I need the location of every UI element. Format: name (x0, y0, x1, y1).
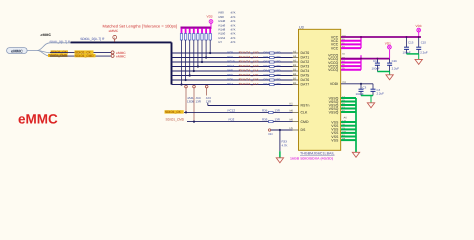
directive eMMC on bus (109, 29, 119, 42)
net label SDIO1_CK (highlighted) at CLK wire (165, 110, 184, 114)
directive eMMC on CMD (111, 54, 126, 58)
pin RSTn (293, 104, 310, 108)
capacitor C4 2.2uF (371, 84, 385, 96)
svg-text:C13: C13 (408, 41, 414, 45)
wire RSTn elbow (207, 103, 209, 106)
svg-text:DAT0: DAT0 (301, 51, 310, 55)
svg-text:PC9: PC9 (227, 55, 233, 59)
svg-text:13R: 13R (275, 64, 280, 68)
svg-text:DAT6: DAT6 (301, 78, 310, 82)
power port VD3 on VCC rail (416, 24, 422, 37)
svg-text:R10: R10 (264, 51, 270, 55)
resistor R150 47K pull-up (201, 28, 203, 62)
junction SDIO1_D6 (185, 79, 187, 81)
junction C15 (418, 36, 420, 38)
svg-text:U3: U3 (299, 25, 304, 29)
harness fan (37, 43, 50, 56)
svg-text:PD2: PD2 (229, 118, 235, 122)
svg-text:R13: R13 (264, 64, 270, 68)
svg-text:CLK: CLK (301, 111, 308, 115)
wire SDIO1_D0 (172, 52, 293, 54)
series resistor R36 13R on CLK (262, 108, 280, 113)
svg-text:13DB: 13DB (187, 99, 194, 103)
svg-text:13R: 13R (275, 51, 280, 55)
wire SDIO1_D4 (172, 70, 293, 72)
right pin numbers (342, 34, 347, 140)
svg-text:M6: M6 (290, 109, 294, 112)
svg-text:VD3: VD3 (416, 24, 422, 28)
gnd stem (389, 72, 391, 75)
svg-text:VSS: VSS (331, 138, 339, 142)
pin DAT2 (293, 60, 310, 64)
junction SDIO1_D7 (180, 83, 182, 85)
pin DAT1 (293, 56, 310, 60)
junction SDIO1_D3 (197, 65, 199, 67)
svg-text:PB8: PB8 (227, 69, 233, 73)
svg-text:2.2uF: 2.2uF (420, 50, 428, 54)
junction DS pulldown (279, 129, 281, 131)
resistor R140 47K pull-up (189, 28, 191, 75)
directive circle 2 (CMD net) (193, 85, 196, 121)
resistor R146 47K pull-up (193, 28, 195, 71)
pin DAT5 (293, 74, 310, 78)
svg-text:13R: 13R (275, 78, 280, 82)
svg-text:SDIO1_D0: SDIO1_D0 (239, 51, 259, 55)
pin DAT0 (293, 51, 310, 55)
junction VCCQ rail (360, 58, 362, 60)
gnd stem (370, 96, 372, 103)
junction SDIO1_D2 (201, 61, 203, 63)
svg-text:13R: 13R (275, 108, 280, 112)
pin DS (293, 128, 307, 132)
ground VCC caps (415, 59, 422, 64)
svg-text:VDDI: VDDI (330, 82, 338, 86)
pin DAT3 (293, 65, 310, 69)
wire SDIO1_D1 (172, 57, 293, 59)
svg-text:SDIO1_D5: SDIO1_D5 (239, 73, 259, 77)
power port VD1 on VCCQ rail (385, 41, 392, 58)
wire SDIO1_D7 (172, 84, 293, 86)
directive text JA31 13DB (187, 96, 194, 103)
pin DAT6 (293, 78, 310, 82)
svg-text:VCCQ: VCCQ (328, 68, 338, 72)
svg-text:13R: 13R (196, 99, 201, 103)
svg-text:R15: R15 (264, 73, 270, 77)
svg-text:SDIO1_D7: SDIO1_D7 (239, 82, 259, 86)
svg-text:R17: R17 (264, 82, 270, 86)
wire SDIO1_D2 (172, 61, 293, 63)
svg-text:DAT3: DAT3 (301, 65, 310, 69)
svg-text:13R: 13R (275, 73, 280, 77)
svg-text:M5: M5 (290, 119, 294, 122)
net label SDIO1_CMD (highlighted) (75, 54, 96, 58)
svg-text:SDIO1_CMD: SDIO1_CMD (166, 118, 185, 122)
svg-text:VD1: VD1 (385, 41, 391, 45)
svg-text:SDIO1_D1: SDIO1_D1 (239, 55, 259, 59)
directive circle on DS (268, 129, 272, 136)
junction C14 (376, 58, 378, 60)
series resistor R16 13R (264, 78, 281, 82)
svg-text:C16: C16 (392, 59, 398, 63)
svg-text:R36: R36 (262, 108, 268, 112)
bus vertical (171, 42, 173, 84)
svg-text:C3: C3 (363, 85, 367, 89)
green gnd wire VCC caps (407, 53, 419, 55)
svg-text:13R: 13R (275, 60, 280, 64)
VCCQ pin bars (341, 58, 361, 60)
series resistor R11 13R (264, 55, 281, 59)
capacitor C15 2.2uF (416, 37, 428, 54)
svg-text:K5: K5 (290, 103, 294, 106)
VCC power rail (341, 36, 421, 38)
svg-text:13R: 13R (275, 55, 280, 59)
junction CMD/directive (193, 121, 195, 123)
junction SDIO1_D1 (205, 56, 207, 58)
svg-text:C14: C14 (373, 59, 379, 63)
svg-text:R11: R11 (264, 55, 269, 59)
directive eMMC on CK (111, 51, 126, 55)
svg-text:SDIO1_CMD: SDIO1_CMD (75, 54, 94, 58)
wire CLK (184, 111, 293, 113)
svg-text:VD3: VD3 (207, 15, 213, 19)
harness entry SDIO1_CMD (highlighted) (48, 54, 68, 58)
svg-text:PC11: PC11 (227, 64, 235, 68)
net label SDIO1_CK (highlighted) (75, 50, 94, 54)
resistor R98 47K pull-up (184, 28, 186, 80)
VCCQ vertical join (360, 55, 362, 70)
series resistor R10 13R (264, 51, 281, 55)
wire SDIO1_CMD (50, 55, 111, 57)
VCC vertical join (360, 37, 362, 48)
VSS vertical join (green) (355, 98, 357, 152)
wire CMD (187, 121, 293, 123)
pin DAT7 (293, 83, 310, 87)
svg-text:DAT4: DAT4 (301, 69, 310, 73)
svg-text:SDIO1_D2: SDIO1_D2 (239, 60, 259, 64)
svg-text:PC12: PC12 (228, 109, 236, 113)
green highlighted gnd wire DS (279, 151, 281, 158)
harness segment to bus (50, 42, 71, 44)
pin CMD (293, 120, 309, 124)
svg-text:13R: 13R (275, 118, 280, 122)
wire SDIO1_D6 (172, 79, 293, 81)
svg-text:DAT7: DAT7 (301, 83, 310, 87)
resistor R90 47K pull-up (180, 28, 182, 84)
junction SDIO1_D5 (189, 74, 191, 76)
wire DS (271, 129, 293, 131)
svg-text:DAT5: DAT5 (301, 74, 310, 78)
svg-text:SDIO1_CK: SDIO1_CK (165, 110, 182, 114)
svg-text:PB9: PB9 (227, 73, 233, 77)
power rail of resistor bank (181, 27, 212, 29)
svg-text:SDIO1_CMD: SDIO1_CMD (49, 54, 68, 58)
resistor R7 47K pull-up (209, 28, 211, 53)
pin CLK (293, 111, 308, 115)
resistor designator list (219, 11, 236, 44)
svg-text:R35: R35 (262, 118, 268, 122)
series resistor R35 13R on CMD (262, 118, 280, 123)
svg-text:eMMC: eMMC (116, 55, 126, 59)
svg-text:13R: 13R (275, 82, 280, 86)
IC U3 eMMC body (299, 29, 341, 150)
green gnd wire VDDI caps (361, 95, 373, 97)
VSS pin bars (green) (341, 121, 356, 123)
series resistor R17 13R (264, 82, 281, 86)
svg-text:13R: 13R (206, 99, 211, 103)
capacitor C13 100nF (403, 37, 414, 54)
svg-text:R14: R14 (264, 69, 270, 73)
svg-text:C6: C6 (342, 53, 346, 56)
svg-text:PC8: PC8 (227, 51, 233, 55)
svg-text:PC10: PC10 (227, 60, 235, 64)
svg-text:13R: 13R (275, 69, 280, 73)
junction VCC rail (360, 36, 362, 38)
directive text JA3 13R (206, 96, 211, 103)
svg-text:SDIO1_D3: SDIO1_D3 (239, 64, 259, 68)
ground below R33 (276, 158, 283, 163)
svg-text:2.2uF: 2.2uF (377, 92, 385, 96)
svg-text:eMMC: eMMC (18, 112, 58, 127)
svg-text:100nF: 100nF (372, 67, 380, 71)
wire VDDI (341, 83, 373, 85)
resistor R152 47K pull-up (205, 28, 207, 57)
series resistor R14 13R (264, 69, 281, 73)
junction CLK/directive (185, 111, 187, 113)
directive circle 1 (CLK net) (185, 85, 188, 112)
svg-text:SDIO1_D[0..7] ⇈: SDIO1_D[0..7] ⇈ (80, 37, 105, 41)
svg-text:DN: DN (269, 133, 273, 136)
resistor R33 4.7K pulldown wire (279, 130, 281, 151)
bus SDIO1_D[0..7] horizontal (71, 41, 172, 43)
svg-text:.eMMC: .eMMC (40, 33, 52, 37)
svg-text:SDIO1_D4: SDIO1_D4 (239, 69, 259, 73)
svg-text:R16: R16 (264, 78, 270, 82)
ground VDDI caps (367, 103, 374, 108)
svg-text:SDIO1_D[0..7] ⇈: SDIO1_D[0..7] ⇈ (50, 40, 71, 44)
wire SDIO1_D3 (172, 66, 293, 68)
green gnd wire VCCQ caps (377, 71, 389, 73)
ground VCCQ caps (386, 75, 393, 80)
svg-text:H5: H5 (290, 127, 294, 130)
series resistor R15 13R (264, 73, 281, 77)
series resistor R12 13R (264, 60, 281, 64)
resistor R33 labels (282, 140, 288, 148)
svg-text:RSTn: RSTn (301, 104, 310, 108)
svg-text:VCC: VCC (331, 46, 339, 50)
svg-text:DAT2: DAT2 (301, 60, 310, 64)
svg-text:DAT1: DAT1 (301, 56, 310, 60)
harness port eMMC (7, 48, 28, 54)
junction SDIO1_D4 (193, 70, 195, 72)
svg-text:CMD: CMD (301, 120, 309, 124)
svg-text:eMMC: eMMC (11, 49, 23, 54)
svg-text:SDIO1_D6: SDIO1_D6 (239, 78, 259, 82)
svg-text:PC7: PC7 (227, 82, 233, 86)
svg-text:A6: A6 (344, 116, 348, 119)
capacitor C14 100nF (372, 59, 380, 72)
svg-text:VSSQ: VSSQ (329, 110, 339, 114)
junction C3 (360, 83, 362, 85)
wire SDIO1_CK (50, 52, 111, 54)
svg-text:47K: 47K (231, 40, 236, 44)
capacitor C3 100nF (356, 84, 367, 96)
junction C13 (406, 36, 408, 38)
directive circle 3 (RSTn net) (205, 85, 208, 95)
VCC pin bars (341, 40, 361, 42)
svg-text:4.7K: 4.7K (282, 143, 288, 147)
ground VSS (352, 152, 359, 157)
power port VD3 above resistor bank (207, 15, 213, 28)
series resistor R13 13R (264, 64, 281, 68)
svg-text:eMMC: eMMC (109, 29, 119, 33)
svg-text:R12: R12 (264, 60, 270, 64)
svg-text:R7: R7 (219, 40, 223, 44)
svg-text:THGBMJG6C1LBAIL: THGBMJG6C1LBAIL (300, 151, 335, 155)
svg-text:C15: C15 (421, 41, 427, 45)
svg-text:16GB SDIO/SDXA (4G/3D): 16GB SDIO/SDXA (4G/3D) (290, 157, 333, 161)
wire SDIO1_D5 (172, 75, 293, 77)
harness entry SDIO1_CK (highlighted) (51, 50, 69, 54)
svg-text:Matched Set Lengths [Tolerance: Matched Set Lengths [Tolerance = 100ps] (103, 24, 178, 29)
svg-text:2.2uF: 2.2uF (392, 67, 400, 71)
gnd stem (418, 54, 420, 60)
VSSQ pin bars (green) (341, 97, 356, 99)
wire port to harness fan (27, 50, 37, 52)
directive text JC0 13R (196, 96, 202, 103)
pin DAT4 (293, 69, 310, 73)
VCCQ power rail (341, 58, 390, 60)
resistor R148 47K pull-up (197, 28, 199, 66)
junction SDIO1_D0 (209, 52, 211, 54)
svg-text:DS: DS (301, 128, 307, 132)
svg-text:PC6: PC6 (227, 78, 233, 82)
capacitor C16 2.2uF (387, 59, 399, 72)
